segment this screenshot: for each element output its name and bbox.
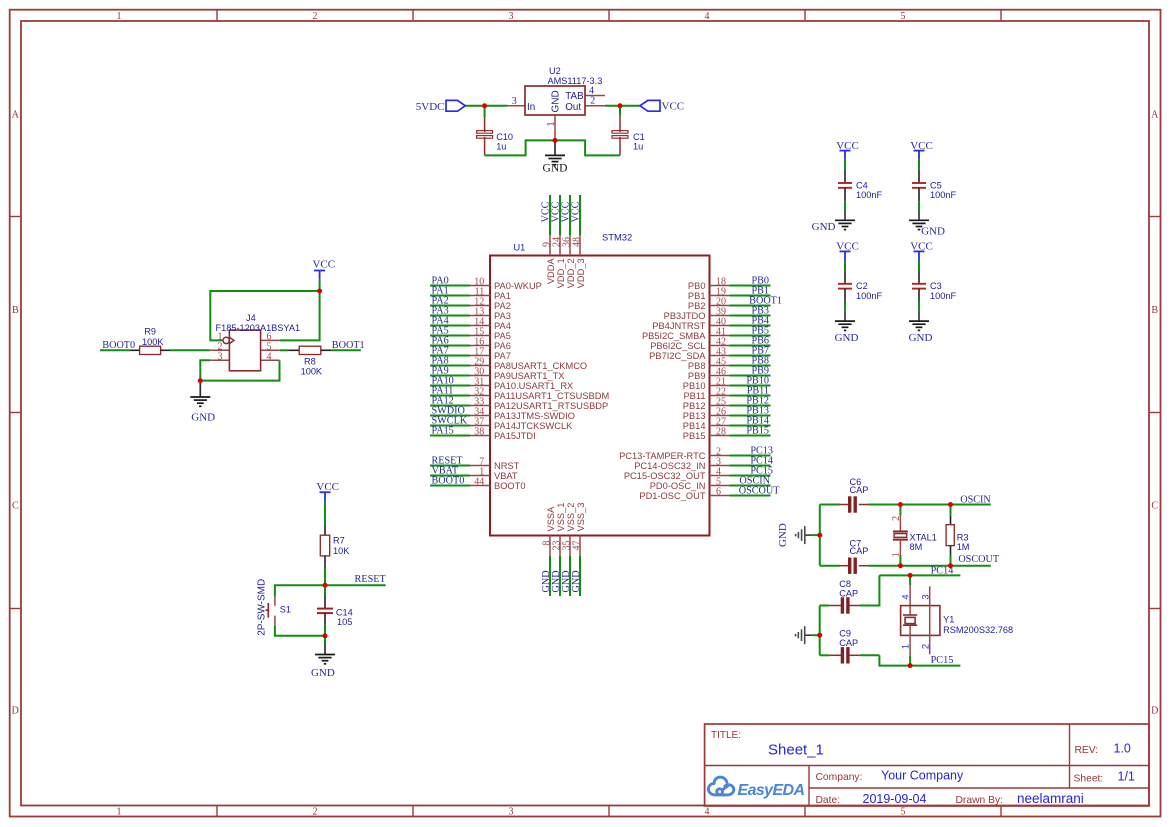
svg-text:REV:: REV: bbox=[1075, 745, 1099, 756]
svg-text:D: D bbox=[1151, 706, 1158, 717]
svg-text:1u: 1u bbox=[633, 142, 643, 152]
svg-text:PA12USART1_RTSUSBDP: PA12USART1_RTSUSBDP bbox=[494, 401, 608, 411]
svg-text:GND: GND bbox=[191, 411, 215, 423]
svg-text:100nF: 100nF bbox=[856, 291, 882, 301]
svg-text:BOOT0: BOOT0 bbox=[494, 481, 526, 491]
svg-text:PA15JTDI: PA15JTDI bbox=[494, 431, 536, 441]
svg-text:PB3JTDO: PB3JTDO bbox=[664, 311, 706, 321]
svg-text:PB15: PB15 bbox=[683, 431, 706, 441]
svg-text:5VDC: 5VDC bbox=[416, 101, 445, 113]
svg-text:F185-1203A1BSYA1: F185-1203A1BSYA1 bbox=[216, 323, 301, 333]
svg-text:R7: R7 bbox=[333, 536, 345, 546]
svg-text:C5: C5 bbox=[930, 180, 942, 190]
svg-text:28: 28 bbox=[716, 426, 726, 437]
svg-text:R3: R3 bbox=[957, 532, 969, 542]
svg-text:C1: C1 bbox=[633, 132, 645, 142]
svg-text:C: C bbox=[12, 500, 19, 511]
svg-text:OSCOUT: OSCOUT bbox=[958, 554, 1000, 565]
svg-text:C10: C10 bbox=[496, 132, 513, 142]
svg-text:4: 4 bbox=[267, 351, 272, 362]
svg-text:3: 3 bbox=[218, 351, 223, 362]
svg-text:PD1-OSC_OUT: PD1-OSC_OUT bbox=[639, 491, 705, 501]
svg-text:PA3: PA3 bbox=[494, 311, 511, 321]
svg-text:VCC: VCC bbox=[571, 201, 582, 222]
svg-text:R8: R8 bbox=[304, 356, 316, 366]
svg-text:PB2: PB2 bbox=[688, 301, 706, 311]
svg-text:6: 6 bbox=[716, 486, 721, 497]
svg-text:BOOT0: BOOT0 bbox=[432, 475, 465, 486]
svg-text:4: 4 bbox=[705, 11, 710, 22]
svg-text:2: 2 bbox=[313, 806, 318, 817]
svg-text:VSSA: VSSA bbox=[546, 506, 556, 532]
svg-text:2P-SW-SMD: 2P-SW-SMD bbox=[257, 579, 268, 636]
svg-text:105: 105 bbox=[337, 617, 352, 627]
svg-text:C14: C14 bbox=[336, 607, 353, 617]
svg-text:3: 3 bbox=[919, 594, 930, 599]
svg-text:1.0: 1.0 bbox=[1114, 742, 1131, 756]
svg-text:CAP: CAP bbox=[839, 638, 858, 648]
svg-text:PA15: PA15 bbox=[432, 425, 454, 436]
svg-text:PC15-OSC32_OUT: PC15-OSC32_OUT bbox=[624, 471, 706, 481]
svg-text:GND: GND bbox=[909, 332, 933, 344]
svg-text:3: 3 bbox=[512, 96, 517, 107]
svg-text:2: 2 bbox=[919, 644, 930, 649]
svg-text:2: 2 bbox=[313, 11, 318, 22]
svg-text:2: 2 bbox=[891, 516, 902, 521]
svg-text:PA5: PA5 bbox=[494, 331, 511, 341]
svg-text:PB12: PB12 bbox=[683, 401, 706, 411]
svg-text:VDDA: VDDA bbox=[546, 258, 556, 285]
svg-text:B: B bbox=[12, 305, 19, 316]
svg-text:VDD_3: VDD_3 bbox=[576, 258, 586, 288]
svg-text:3: 3 bbox=[509, 11, 514, 22]
svg-text:PA9USART1_TX: PA9USART1_TX bbox=[494, 371, 564, 381]
svg-text:PC14-OSC32_IN: PC14-OSC32_IN bbox=[634, 461, 705, 471]
svg-text:RSM200S32.768: RSM200S32.768 bbox=[943, 625, 1013, 635]
svg-text:PC15: PC15 bbox=[931, 655, 954, 666]
svg-text:1: 1 bbox=[117, 11, 122, 22]
svg-text:100K: 100K bbox=[142, 337, 164, 347]
svg-text:1/1: 1/1 bbox=[1118, 770, 1135, 784]
svg-text:CAP: CAP bbox=[850, 546, 869, 556]
svg-text:Company:: Company: bbox=[816, 772, 863, 783]
svg-text:PB9: PB9 bbox=[688, 371, 706, 381]
svg-text:Y1: Y1 bbox=[943, 615, 954, 625]
svg-text:PB0: PB0 bbox=[688, 281, 706, 291]
svg-text:1: 1 bbox=[546, 122, 557, 127]
svg-text:AMS1117-3.3: AMS1117-3.3 bbox=[548, 76, 603, 86]
svg-text:1M: 1M bbox=[957, 542, 970, 552]
svg-text:PA14JTCKSWCLK: PA14JTCKSWCLK bbox=[494, 421, 573, 431]
svg-text:GND: GND bbox=[777, 523, 789, 547]
svg-text:PA7: PA7 bbox=[494, 351, 511, 361]
svg-text:TAB: TAB bbox=[565, 91, 584, 102]
svg-text:PB6I2C_SCL: PB6I2C_SCL bbox=[650, 341, 705, 351]
svg-text:GND: GND bbox=[543, 163, 568, 175]
svg-text:VCC: VCC bbox=[312, 258, 335, 270]
svg-text:1: 1 bbox=[891, 552, 902, 557]
svg-text:Sheet_1: Sheet_1 bbox=[768, 742, 824, 759]
svg-text:48: 48 bbox=[572, 237, 583, 247]
svg-text:A: A bbox=[1151, 110, 1159, 121]
svg-text:PA13JTMS-SWDIO: PA13JTMS-SWDIO bbox=[494, 411, 575, 421]
svg-text:PA6: PA6 bbox=[494, 341, 511, 351]
svg-text:4: 4 bbox=[900, 594, 911, 599]
svg-text:10K: 10K bbox=[333, 546, 350, 556]
svg-text:BOOT1: BOOT1 bbox=[332, 340, 365, 351]
svg-text:PB13: PB13 bbox=[683, 411, 706, 421]
svg-text:In: In bbox=[527, 102, 535, 113]
svg-text:44: 44 bbox=[474, 476, 484, 487]
svg-text:U2: U2 bbox=[549, 66, 561, 76]
svg-text:VSS_2: VSS_2 bbox=[566, 503, 576, 532]
svg-text:2: 2 bbox=[590, 96, 595, 107]
svg-text:PA1: PA1 bbox=[494, 291, 511, 301]
svg-text:Date:: Date: bbox=[816, 795, 841, 806]
svg-text:neelamrani: neelamrani bbox=[1017, 791, 1084, 806]
svg-text:GND: GND bbox=[571, 570, 582, 592]
svg-text:GND: GND bbox=[921, 226, 945, 238]
svg-text:PB5I2C_SMBA: PB5I2C_SMBA bbox=[642, 331, 706, 341]
svg-text:A: A bbox=[12, 110, 20, 121]
svg-text:C: C bbox=[1151, 500, 1158, 511]
svg-text:3: 3 bbox=[509, 806, 514, 817]
svg-text:Sheet:: Sheet: bbox=[1074, 773, 1104, 784]
svg-text:VBAT: VBAT bbox=[494, 471, 518, 481]
svg-text:8M: 8M bbox=[910, 542, 923, 552]
svg-text:100nF: 100nF bbox=[930, 190, 956, 200]
svg-text:NRST: NRST bbox=[494, 461, 520, 471]
svg-text:PB7I2C_SDA: PB7I2C_SDA bbox=[649, 351, 706, 361]
svg-text:PB10: PB10 bbox=[683, 381, 706, 391]
svg-text:GND: GND bbox=[311, 667, 335, 679]
svg-text:4: 4 bbox=[589, 85, 594, 96]
svg-text:GND: GND bbox=[812, 221, 836, 233]
svg-text:VCC: VCC bbox=[316, 481, 339, 493]
svg-text:C4: C4 bbox=[856, 180, 868, 190]
svg-text:C3: C3 bbox=[930, 281, 942, 291]
svg-text:TITLE:: TITLE: bbox=[711, 730, 741, 741]
svg-text:PD0-OSC_IN: PD0-OSC_IN bbox=[650, 481, 706, 491]
svg-text:EasyEDA: EasyEDA bbox=[738, 782, 805, 799]
svg-text:R9: R9 bbox=[144, 327, 156, 337]
svg-text:BOOT0: BOOT0 bbox=[102, 340, 135, 351]
svg-text:PA4: PA4 bbox=[494, 321, 511, 331]
svg-text:100nF: 100nF bbox=[856, 190, 882, 200]
svg-text:PA8USART1_CKMCO: PA8USART1_CKMCO bbox=[494, 361, 587, 371]
svg-text:S1: S1 bbox=[280, 604, 291, 614]
svg-text:VDD_1: VDD_1 bbox=[556, 258, 566, 288]
svg-text:PC13-TAMPER-RTC: PC13-TAMPER-RTC bbox=[619, 451, 706, 461]
svg-text:1: 1 bbox=[117, 806, 122, 817]
svg-text:VDD_2: VDD_2 bbox=[566, 258, 576, 288]
svg-text:B: B bbox=[1151, 305, 1158, 316]
svg-text:CAP: CAP bbox=[850, 485, 869, 495]
svg-text:OSCOUT: OSCOUT bbox=[739, 485, 781, 496]
svg-text:PB4JNTRST: PB4JNTRST bbox=[652, 321, 706, 331]
svg-text:Drawn By:: Drawn By: bbox=[956, 795, 1004, 806]
svg-text:U1: U1 bbox=[514, 243, 526, 253]
svg-text:PB15: PB15 bbox=[746, 425, 769, 436]
svg-text:PB14: PB14 bbox=[683, 421, 706, 431]
svg-text:38: 38 bbox=[474, 426, 484, 437]
svg-text:C2: C2 bbox=[856, 281, 868, 291]
svg-text:GND: GND bbox=[835, 332, 859, 344]
svg-text:5: 5 bbox=[901, 806, 906, 817]
svg-text:47: 47 bbox=[572, 541, 583, 551]
svg-text:PA10.USART1_RX: PA10.USART1_RX bbox=[494, 381, 573, 391]
svg-text:Your Company: Your Company bbox=[881, 769, 964, 783]
svg-text:OSCIN: OSCIN bbox=[960, 494, 991, 505]
svg-text:PA0-WKUP: PA0-WKUP bbox=[494, 281, 542, 291]
svg-text:1: 1 bbox=[900, 644, 911, 649]
svg-text:VCC: VCC bbox=[662, 101, 685, 113]
svg-text:100nF: 100nF bbox=[930, 291, 956, 301]
svg-text:PB1: PB1 bbox=[688, 291, 706, 301]
svg-text:CAP: CAP bbox=[839, 589, 858, 599]
svg-text:RESET: RESET bbox=[355, 574, 387, 585]
svg-text:100K: 100K bbox=[301, 366, 323, 376]
svg-text:PB11: PB11 bbox=[683, 391, 705, 401]
svg-text:Out: Out bbox=[565, 102, 581, 113]
svg-text:PA2: PA2 bbox=[494, 301, 511, 311]
svg-text:4: 4 bbox=[705, 806, 710, 817]
svg-text:VSS_3: VSS_3 bbox=[576, 503, 586, 532]
svg-text:D: D bbox=[12, 706, 19, 717]
svg-text:VSS_1: VSS_1 bbox=[556, 503, 566, 532]
svg-text:2019-09-04: 2019-09-04 bbox=[863, 792, 927, 806]
svg-text:XTAL1: XTAL1 bbox=[910, 532, 937, 542]
svg-text:GND: GND bbox=[551, 90, 562, 112]
svg-text:J4: J4 bbox=[246, 313, 256, 323]
svg-text:PA11USART1_CTSUSBDM: PA11USART1_CTSUSBDM bbox=[494, 391, 609, 401]
svg-text:5: 5 bbox=[901, 11, 906, 22]
svg-text:PB8: PB8 bbox=[688, 361, 706, 371]
svg-text:1u: 1u bbox=[496, 142, 506, 152]
svg-text:STM32: STM32 bbox=[602, 232, 632, 243]
